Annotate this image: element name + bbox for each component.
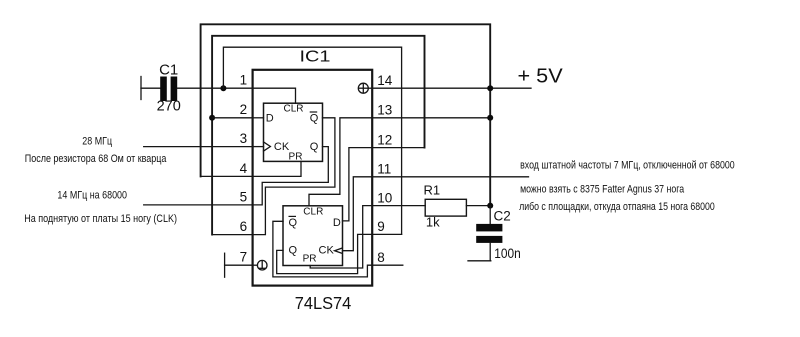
svg-text:R1: R1 [424,182,441,197]
node junction dot R1/C2 [487,203,493,209]
wire Q-bar-2 to pin 8 [273,221,372,277]
svg-text:270: 270 [157,99,181,115]
svg-text:Q: Q [289,217,298,229]
svg-text:CK: CK [319,244,335,256]
svg-text:3: 3 [240,131,248,146]
svg-text:можно взять с 8375 Fatter Agnu: можно взять с 8375 Fatter Agnus 37 нога [520,183,685,195]
wire inner feedback loop pin1 to pin9 [223,47,401,234]
wire Q2 to pin 9 [277,234,373,273]
wire C1 left lead [141,87,160,89]
ground symbol circled at pin 7 [253,260,267,270]
svg-text:1: 1 [240,73,248,88]
wire pin1 to CLR1 inside IC [253,88,296,103]
clock arrow CK2 [335,248,343,253]
wire input stub tick at C1 left [140,77,142,100]
node junction dot +5V rail pin14 [487,85,493,91]
svg-text:12: 12 [377,132,392,147]
svg-text:вход штатной частоты 7 МГц, от: вход штатной частоты 7 МГц, отключенной … [520,159,735,171]
wire pin 13 [372,117,490,119]
ground tick at pin 7 [224,253,226,277]
wire C1 to pin 1 [177,87,252,89]
wire pin10 to PR2 [310,206,372,268]
svg-text:CK: CK [274,141,290,153]
wire pin 14 to +5V [372,87,531,89]
svg-text:10: 10 [377,190,392,205]
svg-text:PR: PR [303,253,317,264]
svg-text:CLR: CLR [283,104,303,115]
svg-text:14: 14 [377,73,393,88]
svg-text:C2: C2 [494,209,511,224]
clock triangle CK1 [264,142,271,151]
wire pin13 to CLR2 [309,118,372,206]
svg-text:5: 5 [240,189,248,204]
svg-text:4: 4 [240,161,248,176]
wire pin 7 [225,264,253,266]
power symbol circled plus at pin 14 [358,83,372,93]
flip-flop U1A box [264,103,323,161]
wire pin 9 [372,233,401,235]
IC1 package box 74LS74 [253,70,373,286]
svg-text:D: D [266,113,274,125]
svg-text:Q: Q [310,113,319,125]
wire middle feedback loop pin2/pin6 to pin12 [212,36,424,235]
svg-text:либо с площадки, откуда отпаян: либо с площадки, откуда отпаяна 15 нога … [519,201,715,213]
wire pin 10 to R1 [372,205,425,207]
wire pin2 to D1 [253,117,264,119]
svg-text:CLR: CLR [303,207,323,218]
wire pin 11 (7 MHz input) [372,176,528,178]
node junction dot pin1/inner loop [220,85,226,91]
wire pin4 to PR1 [253,161,301,176]
ground bar below C2 [468,260,491,262]
svg-text:D: D [333,217,341,229]
svg-text:+ 5V: + 5V [518,65,564,87]
svg-text:PR: PR [289,152,303,163]
wire pin 5 (14 MHz output) [144,204,253,206]
svg-text:7: 7 [240,250,248,265]
wire outer loop pin4 to +5V rail [201,24,491,205]
wire pin 8 stub [372,264,403,266]
wire C2 bottom lead [489,243,491,261]
svg-text:После резистора 68 Ом от кварц: После резистора 68 Ом от кварца [25,153,167,165]
svg-text:9: 9 [377,219,385,234]
svg-text:100n: 100n [494,245,521,261]
wire pin 6 [212,234,253,236]
capacitor C1 [160,77,177,102]
svg-text:C1: C1 [159,62,178,79]
svg-text:Q: Q [289,244,298,256]
wire pin12 to D2 [343,148,373,221]
svg-text:Q: Q [310,141,319,153]
wire pin 12 [372,147,424,149]
wire Q-bar-1 to pin 6 [253,118,335,235]
svg-text:8: 8 [377,250,385,265]
wire pin 4 [201,175,253,177]
wire pin 2 [212,117,253,119]
wire pin11 to CK2 [343,177,373,251]
svg-text:6: 6 [240,219,248,234]
node junction dot +5V rail pin13 [487,115,493,121]
capacitor C2 [476,224,502,243]
svg-text:На поднятую от платы 15 ногу (: На поднятую от платы 15 ногу (CLK) [24,213,177,225]
svg-text:74LS74: 74LS74 [295,293,352,313]
resistor R1 [425,199,466,216]
svg-text:11: 11 [377,162,391,177]
wire C2 top lead [489,206,491,224]
wire pin3 to CK1 [253,146,264,148]
wire Q1 to pin 5 [253,147,329,205]
svg-text:13: 13 [377,103,392,118]
svg-text:14 МГц на 68000: 14 МГц на 68000 [57,190,127,202]
node junction dot pin2/middle loop [209,115,215,121]
wire pin 3 (28 MHz input) [144,146,253,148]
svg-text:1k: 1k [426,214,440,229]
svg-text:2: 2 [240,102,248,117]
svg-text:28 МГц: 28 МГц [82,135,112,147]
flip-flop U1B box [283,206,343,266]
svg-text:IC1: IC1 [300,49,331,66]
wire R1 to +5V rail [466,205,490,207]
